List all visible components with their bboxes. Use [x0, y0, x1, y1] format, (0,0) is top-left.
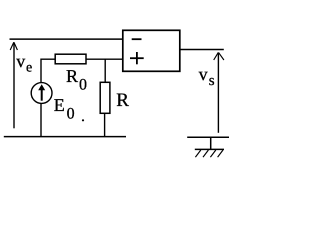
- source E0: [31, 83, 52, 104]
- wire R top lead: [104, 59, 106, 82]
- wire bottom rail: [4, 136, 126, 138]
- pin plus: [130, 52, 144, 64]
- svg-text:v: v: [16, 51, 25, 71]
- resistor R: [100, 82, 110, 113]
- wire R0 right to op-amp + input: [86, 58, 123, 60]
- ground: [187, 137, 229, 157]
- svg-text:E: E: [54, 95, 65, 115]
- label R0: [66, 66, 87, 94]
- svg-text:R: R: [116, 90, 129, 111]
- wire op-amp output: [180, 49, 224, 51]
- label E0: [54, 95, 75, 122]
- stray dot: [82, 119, 84, 121]
- node ve annotation arrow: [10, 42, 17, 128]
- svg-text:s: s: [209, 73, 215, 89]
- wire top rail (inverting input net): [10, 38, 123, 40]
- svg-text:v: v: [199, 64, 208, 84]
- node vs annotation arrow: [214, 52, 224, 132]
- svg-text:0: 0: [79, 77, 87, 94]
- resistor R0: [55, 54, 86, 64]
- svg-text:0: 0: [67, 105, 75, 122]
- svg-text:e: e: [26, 61, 32, 76]
- pin minus: [132, 38, 142, 40]
- wire E0 bottom lead: [40, 103, 42, 136]
- svg-text:R: R: [66, 66, 78, 86]
- wire E0 top lead to R0: [41, 59, 55, 83]
- wire R bottom lead: [104, 113, 106, 136]
- op-amp U1: [123, 30, 180, 71]
- label ve: [16, 51, 32, 76]
- label vs: [199, 64, 215, 89]
